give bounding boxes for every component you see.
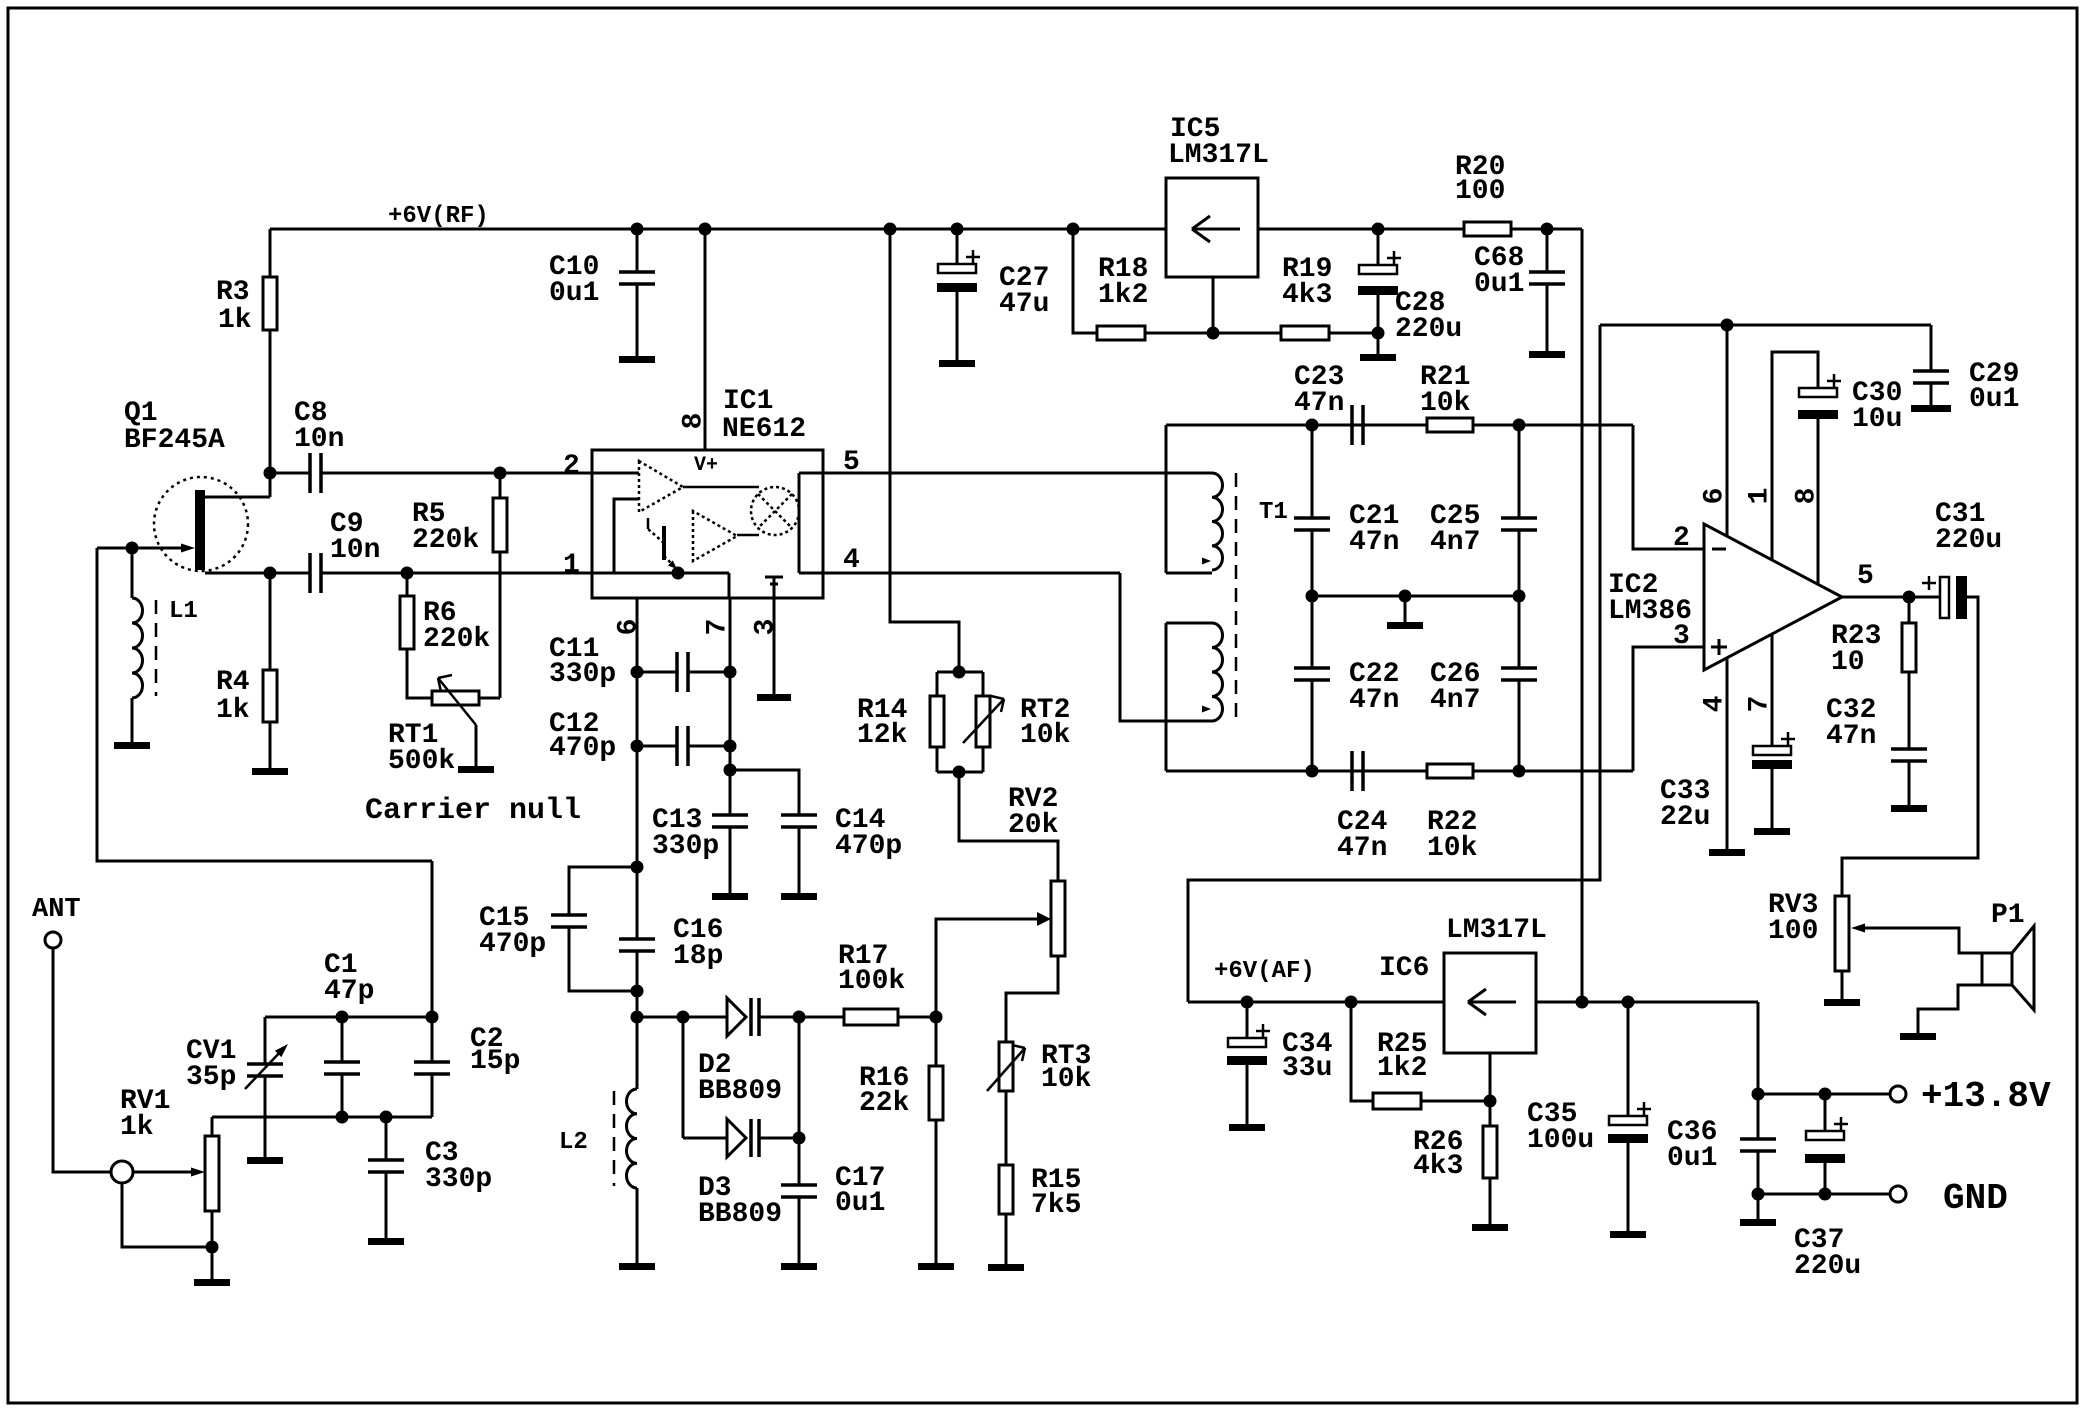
wire C29 bottom lead: [1930, 383, 1933, 405]
svg-text:1k: 1k: [216, 695, 250, 726]
wire gate line: [97, 547, 183, 550]
node junction mid line left: [1306, 590, 1319, 603]
resistor R22: [1427, 764, 1473, 778]
potentiometer RV1: [205, 1136, 219, 1211]
wire RV1 bottom: [211, 1211, 214, 1279]
svg-text:330p: 330p: [425, 1164, 492, 1195]
op-amp IC2 LM386 triangle: [1704, 524, 1842, 670]
wire C11 left lead: [637, 671, 677, 674]
wire +6V(RF) rail right of IC5: [1258, 228, 1582, 231]
wire D2 to R17: [759, 1016, 844, 1019]
svg-text:BB809: BB809: [698, 1076, 782, 1107]
svg-text:4k3: 4k3: [1282, 280, 1332, 311]
capacitor C24: [1350, 751, 1354, 791]
wire C34 bottom lead: [1246, 1064, 1249, 1124]
wire R4 bottom lead: [269, 722, 272, 768]
potentiometer RV1 wiper terminal circle: [111, 1161, 133, 1183]
wire +13.8V feed vertical right end of RF rail down to IC6 input: [1581, 229, 1584, 1002]
svg-text:47p: 47p: [324, 976, 374, 1007]
wire C22 top lead: [1311, 596, 1314, 668]
svg-text:1k2: 1k2: [1098, 280, 1148, 311]
wire R19 right lead: [1329, 332, 1378, 335]
trimmer RT2 wiper diagonal: [963, 699, 1004, 743]
wire IC6 input rail: [1536, 1001, 1758, 1004]
ground under RV3: [1824, 999, 1860, 1006]
svg-text:+6V(RF): +6V(RF): [388, 203, 489, 230]
wire R19 left lead: [1213, 332, 1281, 335]
wire R18 right lead: [1145, 332, 1213, 335]
inductor L2: [627, 1089, 638, 1188]
wire C17 column: [798, 1017, 801, 1185]
node junction gnd-C37: [1819, 1188, 1832, 1201]
svg-text:15p: 15p: [470, 1046, 520, 1077]
diode D2 BB809 varicap: [727, 998, 746, 1036]
ground under R4: [252, 768, 288, 775]
wire R14-RT2 bottom bracket: [936, 747, 939, 772]
IC1 internal ground symbol: [765, 576, 783, 579]
inductor L2 core dashed line: [613, 1091, 616, 1186]
ground under C36: [1740, 1219, 1776, 1226]
svg-text:GND: GND: [1943, 1178, 2008, 1219]
node junction rail-pin8: [699, 223, 712, 236]
resistor R17: [844, 1009, 898, 1025]
wire T1 lower link: [1165, 623, 1168, 771]
svg-text:10k: 10k: [1420, 388, 1471, 419]
node junction L2-D2 row: [631, 1011, 644, 1024]
wire C10 bottom lead: [636, 284, 639, 356]
ground under R26: [1472, 1224, 1508, 1231]
svg-text:35p: 35p: [186, 1062, 236, 1093]
wire R5 bottom to RT1 right: [499, 552, 502, 698]
wire C36 column: [1757, 1094, 1760, 1139]
capacitor C15: [551, 913, 587, 917]
node junction C3 top: [380, 1111, 393, 1124]
svg-text:+13.8V: +13.8V: [1921, 1076, 2051, 1117]
svg-text:47u: 47u: [999, 289, 1049, 320]
IC1 internal pin7 drop: [728, 573, 731, 598]
IC1 internal amp triangle 2 (dotted): [693, 511, 737, 561]
capacitor C29: [1913, 369, 1949, 373]
wire tuned node line: [212, 1116, 432, 1119]
capacitor C9: [308, 553, 312, 593]
svg-text:18p: 18p: [673, 941, 723, 972]
IC1 internal transistor: [662, 526, 666, 560]
diode D3 BB809 varicap: [727, 1119, 746, 1157]
wire IC2 pin 6 supply: [1726, 325, 1729, 536]
capacitor C35 electrolytic: [1609, 1116, 1647, 1125]
wire C15 bottom branch: [569, 927, 637, 991]
capacitor C26: [1501, 666, 1537, 670]
ground under L2: [619, 1263, 655, 1270]
node junction C2 top corner: [426, 1011, 439, 1024]
node junction pin5-R23: [1903, 591, 1916, 604]
ground under C68: [1529, 351, 1565, 358]
potentiometer RV2 wiper arrow: [1037, 912, 1051, 926]
wire C1 top lead: [341, 1017, 344, 1062]
wire D3 row left: [683, 1137, 727, 1140]
wire C11 right lead: [688, 671, 730, 674]
wire C25 bottom lead: [1518, 530, 1521, 596]
wire C21 top lead: [1311, 425, 1314, 518]
resistor R25: [1373, 1093, 1421, 1109]
ground under R15: [988, 1264, 1024, 1271]
ground under C10: [619, 356, 655, 363]
svg-text:NE612: NE612: [722, 414, 806, 445]
capacitor C68: [1529, 270, 1565, 274]
node junction pin6-C15 bottom: [631, 985, 644, 998]
wire RV3 wiper to speaker: [1863, 928, 1982, 953]
svg-text:1: 1: [563, 550, 580, 581]
wire R3 bottom to drain node: [269, 330, 272, 497]
transformer T1 top winding: [1212, 473, 1223, 570]
node junction pin6-C11: [631, 666, 644, 679]
wire Q1 source lead: [205, 572, 270, 575]
svg-text:R4: R4: [216, 667, 250, 698]
wire RV2 bottom to RT3: [1006, 956, 1058, 1042]
wire input rail corner down: [1757, 1002, 1760, 1094]
svg-text:12k: 12k: [857, 720, 908, 751]
svg-text:10u: 10u: [1852, 404, 1902, 435]
wire R5 top lead: [499, 473, 502, 498]
IC1 internal pin5 stub: [799, 472, 823, 475]
svg-text:4n7: 4n7: [1430, 685, 1480, 716]
transistor Q1 gate arrow: [181, 544, 195, 553]
svg-text:L1: L1: [169, 598, 198, 625]
node junction D2-C17 column: [793, 1011, 806, 1024]
wire +6V(RF) rail left of IC5: [270, 228, 1166, 231]
IC2 plus sign: [1711, 646, 1727, 649]
potentiometer RV2: [1051, 881, 1065, 956]
svg-text:4: 4: [843, 545, 860, 576]
capacitor C16: [619, 937, 655, 941]
capacitor C11: [675, 652, 679, 692]
inductor L1 core dashed line: [155, 600, 158, 696]
node junction bottom line C24: [1306, 765, 1319, 778]
svg-text:7k5: 7k5: [1031, 1190, 1081, 1221]
wire C10 top lead: [636, 229, 639, 272]
wire R4 top lead: [269, 573, 272, 670]
node junction C9row-R6: [401, 567, 414, 580]
wire C2 bottom lead: [431, 1074, 434, 1117]
wire C28 bottom lead: [1377, 295, 1380, 354]
wire R16 top lead: [935, 1017, 938, 1066]
resistor R20: [1464, 222, 1511, 236]
regulator IC6 LM317L body: [1444, 953, 1536, 1053]
node junction source-C9: [264, 567, 277, 580]
wire R16 bottom lead: [935, 1120, 938, 1263]
wire RT1 wiper to ground: [475, 725, 478, 766]
wire RT3 to R15: [1005, 1091, 1008, 1165]
node junction top line C23: [1306, 419, 1319, 432]
ground under L1: [114, 742, 150, 749]
wire pin2 feed from filter top: [1633, 425, 1704, 549]
ground under filter mid: [1387, 622, 1423, 629]
wire IC1 pin 4 row: [823, 572, 1120, 575]
capacitor C36: [1740, 1137, 1776, 1141]
wire L2 bottom lead: [636, 1188, 639, 1263]
svg-text:5: 5: [1857, 561, 1874, 592]
ground under IC2 pin 4: [1709, 849, 1745, 856]
capacitor C10: [619, 270, 655, 274]
capacitor C32: [1891, 747, 1927, 751]
node junction D3-C17: [793, 1132, 806, 1145]
node junction pin6-C12: [631, 740, 644, 753]
wire C21 bottom lead: [1311, 530, 1314, 596]
svg-text:BF245A: BF245A: [124, 425, 225, 456]
svg-text:500k: 500k: [388, 746, 455, 777]
svg-text:47n: 47n: [1349, 527, 1399, 558]
svg-text:330p: 330p: [652, 831, 719, 862]
potentiometer RV3 wiper arrow: [1851, 924, 1865, 933]
IC1 internal mixer output 1: [683, 486, 759, 489]
wire pin1-C30 bracket: [1772, 352, 1818, 560]
resistor R26: [1483, 1126, 1497, 1178]
node junction bottom line R22: [1513, 765, 1526, 778]
wire D3 to C17 column: [759, 1137, 799, 1140]
ground under C14: [781, 893, 817, 900]
node junction pin7-C11: [724, 666, 737, 679]
svg-text:10k: 10k: [1041, 1064, 1092, 1095]
wire pin6 feed line: [1600, 324, 1931, 327]
svg-text:IC6: IC6: [1379, 953, 1429, 984]
svg-text:0u1: 0u1: [1667, 1143, 1717, 1174]
node junction C1 bottom: [336, 1111, 349, 1124]
node junction rail-C10: [631, 223, 644, 236]
svg-text:47n: 47n: [1349, 685, 1399, 716]
wire C37 top lead: [1824, 1094, 1827, 1131]
wire IC1 pin 5 to T1 top winding: [823, 472, 1212, 475]
wire +13.8V row: [1758, 1093, 1890, 1096]
wire filter mid line: [1312, 595, 1519, 598]
node junction rail-C27: [951, 223, 964, 236]
wire D2 row left: [637, 1016, 727, 1019]
capacitor C13: [712, 813, 748, 817]
node junction rail-R18: [1067, 223, 1080, 236]
resistor R23: [1902, 623, 1916, 672]
capacitor C22: [1294, 666, 1330, 670]
svg-text:470p: 470p: [479, 929, 546, 960]
svg-text:330p: 330p: [549, 659, 616, 690]
wire R23 to C32: [1908, 672, 1911, 749]
wire R15 bottom lead: [1005, 1214, 1008, 1264]
wire IC2 pin 4 to ground: [1726, 658, 1729, 849]
ground under C17: [781, 1263, 817, 1270]
capacitor C30 electrolytic: [1799, 388, 1837, 397]
svg-text:100: 100: [1455, 176, 1505, 207]
capacitor C27 electrolytic: [938, 264, 976, 273]
resistor R6: [400, 596, 414, 649]
svg-text:47n: 47n: [1337, 833, 1387, 864]
svg-text:V+: V+: [694, 454, 718, 477]
wire C33 bottom lead: [1771, 769, 1774, 828]
wire gate loop to C2 corner: [431, 861, 434, 1017]
svg-text:4k3: 4k3: [1413, 1151, 1463, 1182]
svg-text:1k2: 1k2: [1377, 1053, 1427, 1084]
svg-text:0u1: 0u1: [835, 1188, 885, 1219]
ground under R16: [918, 1263, 954, 1270]
node junction gate-L1: [126, 542, 139, 555]
capacitor C21: [1294, 516, 1330, 520]
node junction pin7-C12: [724, 740, 737, 753]
wire RV1 top to node line: [211, 1117, 214, 1136]
resistor R14: [930, 696, 944, 747]
wire C26 bottom lead: [1518, 680, 1521, 771]
svg-text:IC1: IC1: [723, 386, 773, 417]
svg-text:1k: 1k: [120, 1112, 154, 1143]
node junction rail-C68: [1541, 223, 1554, 236]
ground under C33: [1754, 828, 1790, 835]
svg-text:220u: 220u: [1935, 525, 2002, 556]
IC5 internal arrow: [1192, 228, 1240, 231]
IC1 internal pin1 row: [592, 572, 729, 575]
svg-text:2: 2: [1673, 523, 1690, 554]
loudspeaker P1: [1982, 953, 2012, 985]
node junction RV1 bottom loop: [206, 1241, 219, 1254]
svg-text:100u: 100u: [1527, 1125, 1594, 1156]
node junction rail-R14 branch: [884, 223, 897, 236]
wire IC1 pin 6 vertical: [636, 598, 639, 938]
capacitor C14: [781, 813, 817, 817]
wire CV1 top lead: [264, 1017, 267, 1064]
wire R6 bottom to RT1 left: [407, 649, 432, 698]
wire filter top line: [1166, 424, 1633, 427]
svg-text:6: 6: [613, 619, 644, 636]
wire IC5 adj pin: [1212, 277, 1215, 333]
resistor R4: [263, 670, 277, 722]
wire C3 bottom lead: [385, 1172, 388, 1238]
svg-text:47n: 47n: [1294, 388, 1344, 419]
node junction R14-RT2 top: [953, 666, 966, 679]
wire tuned top node line: [265, 1016, 432, 1019]
wire R26 bottom lead: [1489, 1178, 1492, 1224]
wire C25 top lead: [1518, 425, 1521, 518]
svg-text:220k: 220k: [412, 525, 479, 556]
ground under IC1 pin 3: [757, 694, 791, 701]
resistor R15: [999, 1165, 1013, 1214]
capacitor C2: [414, 1060, 450, 1064]
node junction 13.8-C36: [1752, 1088, 1765, 1101]
capacitor C34 electrolytic: [1228, 1038, 1266, 1047]
ground under C27: [939, 360, 975, 367]
node junction adj-R18-R19: [1207, 327, 1220, 340]
wire +6V(AF) top bracket: [1188, 325, 1600, 1002]
node junction adj-R25-R26: [1484, 1095, 1497, 1108]
svg-text:33u: 33u: [1282, 1053, 1332, 1084]
wire ANT down: [53, 948, 110, 1172]
wire CV1 bottom lead: [264, 1076, 267, 1157]
wire T1 bottom winding top lead: [1166, 622, 1212, 625]
svg-text:LM386: LM386: [1608, 596, 1692, 627]
node junction rail-C34: [1241, 996, 1254, 1009]
node junction pin6 feed: [1721, 319, 1734, 332]
trimmer RT3 wiper diagonal: [987, 1048, 1025, 1091]
node junction R14-RT2 bottom: [953, 766, 966, 779]
svg-text:10: 10: [1831, 647, 1865, 678]
IC1 internal right vertical pin5-pin4: [798, 473, 801, 573]
wire GND row: [1758, 1193, 1890, 1196]
transformer T1 bottom winding: [1212, 623, 1223, 721]
trimmer RT1 wiper diagonal: [438, 678, 476, 725]
svg-text:220u: 220u: [1794, 1251, 1861, 1282]
svg-text:470p: 470p: [835, 831, 902, 862]
svg-text:4n7: 4n7: [1430, 527, 1480, 558]
IC1 internal input wire pin2: [592, 472, 639, 475]
node junction drain-C8: [264, 467, 277, 480]
svg-text:Carrier null: Carrier null: [365, 794, 581, 828]
wire C13 top lead: [729, 770, 732, 815]
node junction mid line right: [1513, 590, 1526, 603]
ground under RT1 wiper: [458, 766, 494, 773]
IC2 minus sign: [1712, 548, 1726, 551]
capacitor C25: [1501, 516, 1537, 520]
ground under C32: [1891, 805, 1927, 812]
capacitor C33 electrolytic: [1753, 746, 1791, 755]
wire C9 row right to IC1 pin 1: [321, 572, 592, 575]
wire T1 top winding bottom lead: [1166, 572, 1212, 575]
resistor R21: [1427, 418, 1473, 432]
node junction mid line centre: [1399, 590, 1412, 603]
wire IC2 pin 5 output: [1842, 596, 1945, 599]
wire C35 bottom lead: [1627, 1143, 1630, 1231]
ground under P1: [1900, 1033, 1936, 1040]
wire C68 top lead: [1546, 229, 1549, 272]
wire R6 top lead: [406, 573, 409, 596]
inductor L1: [132, 598, 143, 698]
IC1 internal pin4 stub: [799, 572, 823, 575]
svg-text:ANT: ANT: [32, 895, 81, 925]
resistor R16: [929, 1066, 943, 1120]
capacitor C8: [308, 453, 312, 493]
wire RV3 bottom lead: [1841, 971, 1844, 999]
transformer T1 top winding sense arrow: [1202, 558, 1211, 565]
wire C13 bottom lead: [729, 827, 732, 893]
svg-text:T1: T1: [1259, 499, 1288, 526]
terminal ANT: [45, 932, 61, 948]
ground under C28: [1360, 354, 1396, 361]
node junction pin6-C15 top: [631, 861, 644, 874]
svg-text:R3: R3: [216, 277, 250, 308]
capacitor C12: [675, 726, 679, 766]
wire P1 return: [1918, 985, 1982, 1033]
IC1 internal mixer output 2: [737, 534, 759, 537]
wire C17 bottom lead: [798, 1197, 801, 1263]
wire L1 bottom lead: [131, 698, 134, 742]
trimmer RT1: [432, 691, 479, 705]
svg-text:220u: 220u: [1395, 314, 1462, 345]
wire D3 branch down: [682, 1017, 685, 1138]
ground under CV1: [247, 1157, 283, 1164]
IC1 internal amp triangle 1 (dotted): [639, 461, 683, 512]
node junction top line R21: [1513, 419, 1526, 432]
svg-text:47n: 47n: [1826, 721, 1876, 752]
wire C9 row left: [270, 572, 310, 575]
svg-text:470p: 470p: [549, 733, 616, 764]
svg-text:BB809: BB809: [698, 1199, 782, 1230]
wire Q1 drain lead: [205, 496, 270, 499]
svg-text:0u1: 0u1: [1474, 269, 1524, 300]
ground under C13: [712, 893, 748, 900]
wire C15 top branch: [569, 867, 637, 915]
transistor Q1 envelope (dotted circle): [154, 477, 248, 571]
svg-text:1k: 1k: [218, 305, 252, 336]
svg-text:0u1: 0u1: [1969, 384, 2019, 415]
ground under C34: [1229, 1124, 1265, 1131]
resistor R5: [493, 498, 507, 552]
svg-text:10k: 10k: [1020, 720, 1071, 751]
wire C8 row right to IC1 pin 2: [321, 472, 592, 475]
wire C26 top lead: [1518, 596, 1521, 668]
potentiometer RV3: [1835, 896, 1849, 971]
